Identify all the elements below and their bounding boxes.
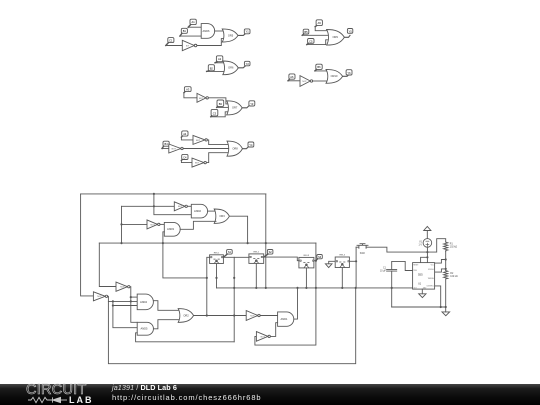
node Y3 flag	[249, 101, 255, 106]
and-gate AND2	[191, 204, 207, 218]
junction	[341, 287, 343, 289]
inverter NOT2	[197, 93, 208, 102]
wire AND4 input3	[113, 305, 137, 307]
svg-text:CONTROL: CONTROL	[426, 286, 433, 288]
wire bus main	[217, 287, 413, 289]
junction	[112, 300, 114, 302]
svg-text:1 V: 1 V	[418, 245, 422, 247]
inverter NOT5	[192, 158, 206, 167]
svg-text:B6: B6	[317, 65, 321, 69]
or-gate OR6	[223, 61, 239, 75]
node C5 flag	[307, 39, 314, 45]
wire AND1 out up to bus	[294, 288, 298, 319]
junction	[120, 223, 122, 225]
inverter NOT12	[256, 332, 270, 342]
or-gate OR2	[178, 309, 193, 323]
svg-text:C1: C1	[169, 39, 173, 43]
and-gate AND5	[137, 322, 153, 335]
wire	[181, 137, 193, 140]
wire	[302, 34, 330, 36]
svg-text:B3: B3	[219, 102, 223, 106]
wire REL1 bottom pin	[216, 264, 218, 288]
wire	[307, 40, 328, 45]
svg-text:OUT: OUT	[413, 287, 416, 289]
svg-text:REL4: REL4	[340, 255, 346, 257]
wire CONTROL branch	[435, 286, 441, 307]
svg-text:AND3: AND3	[167, 227, 174, 231]
wire	[181, 160, 192, 162]
junction	[440, 306, 442, 308]
wire	[208, 210, 216, 212]
wire THRESH branch	[435, 269, 446, 272]
svg-text:OR7: OR7	[232, 106, 238, 110]
svg-text:OR10: OR10	[331, 74, 338, 78]
title text	[112, 384, 261, 402]
junction	[315, 287, 317, 289]
node S2 flag on REL2	[264, 250, 273, 258]
junction	[445, 258, 447, 260]
node Y1 flag	[244, 29, 250, 34]
wire	[160, 223, 164, 225]
svg-text:NOT: NOT	[186, 46, 189, 48]
wire AND4 input1	[131, 296, 137, 298]
svg-text:OR3: OR3	[219, 214, 225, 218]
inverter NOT1	[182, 40, 197, 50]
svg-text:Y2: Y2	[246, 62, 250, 66]
wire NOT10 out long down	[108, 288, 356, 364]
junction	[215, 277, 217, 279]
svg-text:Y3: Y3	[250, 102, 254, 106]
svg-text:A5: A5	[318, 21, 322, 25]
wire 555 GND pin	[421, 289, 423, 294]
resistor R1	[444, 242, 458, 251]
inverter NOT7	[174, 202, 187, 211]
junction	[233, 314, 235, 316]
svg-text:AND4: AND4	[140, 300, 147, 304]
svg-text:OR8: OR8	[232, 147, 238, 151]
wire NOT12 out to AND1	[270, 323, 277, 337]
node A2 flag	[215, 56, 223, 63]
svg-text:C1: C1	[383, 267, 387, 269]
or-gate OR5	[222, 29, 238, 42]
wire SW2 right over to R1 top	[366, 239, 446, 252]
wire	[184, 93, 197, 98]
wire C1 bottom column	[391, 271, 393, 307]
svg-text:R2: R2	[450, 273, 454, 275]
wire REL3 bottom pin	[305, 268, 307, 288]
switch SW2	[356, 244, 368, 256]
svg-text:Y1: Y1	[246, 30, 250, 34]
inverter NOT8	[147, 220, 160, 229]
svg-text:C5: C5	[309, 39, 313, 43]
svg-text:B2: B2	[210, 66, 214, 70]
svg-text:555: 555	[418, 273, 423, 277]
circuitlab logo	[25, 384, 95, 405]
wire	[313, 80, 328, 82]
junction	[233, 287, 235, 289]
wire REL4 bottom pin	[341, 268, 343, 288]
junction	[112, 304, 114, 306]
node B6 flag	[315, 64, 322, 71]
svg-text:REL2: REL2	[254, 251, 260, 253]
wire	[188, 26, 201, 28]
svg-text:B1: B1	[183, 29, 187, 33]
svg-text:REL1: REL1	[214, 252, 220, 254]
wire	[315, 71, 328, 72]
junction	[265, 242, 267, 244]
junction	[206, 277, 208, 279]
svg-text:OR9: OR9	[333, 35, 339, 39]
svg-text:10 µF: 10 µF	[380, 271, 387, 273]
svg-text:AND2: AND2	[194, 209, 201, 213]
wire	[288, 80, 300, 82]
inverter NOT4	[169, 144, 183, 153]
svg-text:B4: B4	[165, 142, 169, 146]
node A5 flag	[315, 20, 322, 27]
inverter NOT9	[116, 282, 130, 291]
wire	[180, 35, 201, 37]
junction	[355, 287, 357, 289]
svg-text:DISCHG: DISCHG	[428, 269, 435, 271]
and-gate AND4	[137, 294, 153, 310]
or-gate OR10	[326, 69, 343, 83]
ground symbol under 555	[419, 294, 426, 298]
junction	[305, 287, 307, 289]
node Y6 flag	[346, 70, 352, 75]
wire	[166, 45, 183, 47]
svg-text:AND6: AND6	[203, 29, 210, 33]
wire AND5 out	[153, 320, 180, 329]
node A3 flag	[184, 87, 191, 93]
and-gate AND3	[164, 222, 180, 236]
wire vertical to AND2 lower input	[154, 194, 191, 215]
wire R1-R2 node to DISCH pin	[435, 251, 446, 270]
or-gate OR7	[227, 101, 243, 115]
node B5 flag	[302, 29, 309, 35]
wire	[183, 148, 228, 150]
relay REL1	[210, 252, 224, 263]
svg-text:A2: A2	[218, 57, 222, 61]
junction	[315, 260, 317, 262]
wire	[162, 148, 169, 150]
svg-text:A1: A1	[192, 20, 196, 24]
junction	[391, 287, 393, 289]
wire	[215, 62, 224, 64]
wire	[207, 70, 225, 72]
svg-text:AND1: AND1	[281, 317, 288, 321]
ground symbol left of REL4	[325, 264, 332, 268]
svg-text:AND5: AND5	[141, 327, 148, 331]
power flag V+	[424, 226, 431, 230]
svg-text:Y4: Y4	[249, 143, 253, 147]
wire REL3 right	[314, 260, 316, 262]
wire vertical x206 REL1 left	[207, 257, 210, 315]
wire	[238, 66, 245, 68]
wire V1 bottom to 555 VCC	[426, 247, 428, 262]
wire AND3 lower input	[163, 232, 207, 278]
relay REL2	[249, 251, 264, 263]
svg-text:Y6: Y6	[347, 71, 351, 75]
wire	[343, 75, 349, 77]
and-gate AND1	[278, 312, 294, 326]
wire	[208, 98, 228, 104]
voltage source V1	[418, 239, 431, 248]
junction	[255, 287, 257, 289]
wire bottom node H307	[392, 306, 446, 308]
svg-text:THRESH: THRESH	[428, 278, 434, 280]
junction	[355, 260, 357, 262]
svg-text:V1: V1	[419, 241, 423, 243]
or-gate OR3	[214, 209, 229, 223]
svg-text:B5: B5	[304, 30, 308, 34]
node A4 flag	[181, 131, 188, 137]
junction	[130, 300, 132, 302]
svg-text:A6: A6	[290, 75, 294, 79]
junction	[265, 287, 267, 289]
resistor R2	[444, 271, 458, 312]
or-gate OR8	[227, 141, 243, 156]
wire to NOT-D input	[122, 205, 175, 207]
wire	[187, 205, 191, 207]
wire top feedback	[81, 193, 266, 195]
svg-text:RESET: RESET	[413, 264, 418, 266]
node B2 flag	[207, 65, 215, 72]
wire	[243, 147, 249, 149]
node A1 flag	[188, 19, 196, 27]
svg-text:102 kΩ: 102 kΩ	[450, 247, 458, 249]
wire	[242, 106, 249, 108]
node B1 flag	[180, 28, 188, 36]
wire	[207, 140, 228, 145]
junction	[162, 242, 164, 244]
op-amp U1 555 timer box	[413, 263, 435, 290]
capacitor C1	[380, 267, 397, 272]
ground symbol under R2	[442, 312, 450, 316]
svg-text:A3: A3	[186, 88, 190, 92]
node S1 flag on REL1	[223, 250, 232, 258]
svg-text:C3: C3	[213, 111, 217, 115]
node B4 flag	[162, 141, 169, 148]
wire	[211, 112, 228, 117]
svg-text:C4: C4	[183, 155, 187, 159]
wire vertical x234	[233, 257, 235, 342]
wire	[315, 27, 327, 31]
junction	[445, 268, 447, 270]
wire ground to REL4 left	[329, 261, 336, 264]
wire NOT9 out vertical	[130, 287, 137, 323]
wire	[215, 30, 224, 32]
wire	[197, 39, 224, 46]
or-gate OR9	[327, 30, 345, 46]
node Y4 flag	[248, 142, 254, 147]
node Y5 flag	[347, 29, 352, 34]
inverter NOT10	[93, 292, 107, 301]
svg-text:Y5: Y5	[349, 29, 353, 33]
svg-text:OR6: OR6	[228, 66, 234, 70]
junction	[130, 296, 132, 298]
wire AND4 input2	[108, 300, 137, 302]
junction	[426, 251, 428, 253]
svg-text:102 kΩ: 102 kΩ	[450, 276, 458, 278]
wire vertical x112	[113, 301, 137, 327]
node C1 flag	[166, 38, 174, 46]
and-gate AND6	[201, 24, 214, 39]
junction	[247, 242, 249, 244]
svg-text:REL3: REL3	[304, 255, 310, 257]
svg-text:OR2: OR2	[183, 313, 189, 317]
inverter NOT6	[300, 76, 313, 87]
wire H2 corner down feedback	[255, 243, 316, 345]
node B3 flag	[217, 100, 224, 107]
node A6 flag	[288, 74, 295, 81]
inverter NOT11	[246, 311, 260, 321]
wire	[238, 34, 245, 36]
relay REL3	[299, 255, 314, 268]
junction	[153, 193, 155, 195]
junction	[296, 287, 298, 289]
relay REL4	[335, 255, 349, 268]
node C4 flag	[181, 154, 188, 160]
wire AND4 out	[153, 301, 180, 311]
wire OR2 out to NOT-G	[194, 315, 247, 317]
wire REL2 bottom pin	[255, 263, 257, 288]
wire bus H2	[99, 242, 316, 244]
wire RESET branch	[421, 257, 428, 262]
wire AND5 lower input	[136, 333, 235, 342]
wire REL2 right to REL3 left	[264, 257, 299, 261]
wire AND3 output to OR3	[180, 221, 216, 229]
junction	[120, 242, 122, 244]
wire to NOT-E input	[122, 223, 148, 225]
wire	[344, 35, 350, 37]
node C3 flag	[211, 109, 218, 116]
wire power to V1	[426, 231, 428, 239]
wire left long vertical	[81, 194, 94, 296]
wire	[260, 315, 277, 317]
junction	[426, 256, 428, 258]
wire OR3 output down	[229, 216, 247, 243]
wire vertical x121	[121, 206, 123, 243]
node S3 flag on REL3	[316, 255, 322, 261]
wire REL4 right to switch column	[349, 260, 356, 262]
junction	[233, 277, 235, 279]
node Y2 flag	[244, 61, 250, 66]
footer bar	[0, 384, 540, 405]
svg-text:R1: R1	[450, 243, 454, 245]
svg-text:A4: A4	[183, 132, 187, 136]
wire	[217, 106, 229, 108]
wire C1 top to TRIG	[392, 261, 413, 270]
svg-text:SW2: SW2	[360, 253, 366, 255]
wire	[206, 153, 228, 163]
wire switch column vertical	[355, 247, 357, 288]
inverter NOT3	[193, 135, 207, 144]
wire left column down to NOT-B	[99, 243, 116, 286]
wire REL1 right to REL2 left	[223, 256, 249, 258]
junction	[206, 314, 208, 316]
svg-text:OR5: OR5	[228, 33, 234, 37]
wire vertical x265	[265, 194, 267, 288]
junction	[445, 306, 447, 308]
junction	[153, 205, 155, 207]
